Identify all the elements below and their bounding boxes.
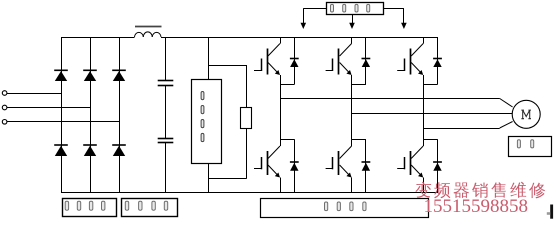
- inductor L1 core bar: [135, 26, 162, 28]
- label box 3 (inverter): [261, 199, 429, 218]
- diode D7 (freewheel): [290, 58, 299, 60]
- wire output U: [280, 98, 500, 100]
- wire D11 leg: [365, 139, 367, 192]
- wire phase leg 3 (mid): [423, 85, 425, 140]
- wire brake unit to DC- bus: [208, 163, 210, 192]
- arrow to phase V gates: [349, 23, 355, 29]
- wire rectifier leg 3: [119, 37, 121, 192]
- wire DC+ top bus (right of inductor): [161, 37, 438, 39]
- wire DC+ top bus (left of inductor): [61, 37, 135, 39]
- wire driver right arm: [384, 8, 404, 10]
- wire brake resistor bottom lead: [246, 128, 248, 179]
- transistor Q1 emitter lead: [280, 75, 282, 85]
- label box 1 (rectifier): [63, 199, 117, 217]
- label box 4 (motor): [509, 137, 552, 157]
- transistor Q2 collector lead: [351, 37, 353, 44]
- transistor Q4 emitter lead: [280, 178, 282, 193]
- wire DC+ to brake unit: [208, 37, 210, 79]
- diode D9 (freewheel): [433, 58, 442, 60]
- brake unit U1 label glyphs: [201, 92, 204, 100]
- wire input L3 to rectifier leg: [7, 121, 119, 123]
- transistor Q4 (IGBT): [268, 146, 280, 159]
- transistor Q6 collector lead: [423, 139, 425, 146]
- svg-text:15515598858: 15515598858: [424, 196, 529, 217]
- diode D8 (freewheel): [362, 58, 371, 60]
- capacitor C2: [158, 138, 174, 140]
- transistor Q5 (IGBT): [340, 146, 352, 159]
- diode D6 (rectifier bottom): [112, 144, 126, 146]
- wire D8 leg: [365, 37, 367, 85]
- wire output V: [352, 113, 513, 115]
- wire phase leg 2 (mid): [351, 85, 353, 140]
- wire cap leg lower: [165, 143, 167, 193]
- brake unit U1 box: [192, 80, 222, 164]
- wire cap leg middle: [165, 85, 167, 138]
- wire input L1 to rectifier leg: [7, 93, 61, 95]
- wire junction Q3/D9: [423, 84, 437, 86]
- wire driver middle arm: [352, 15, 354, 24]
- wire input L2 to rectifier leg: [7, 107, 90, 109]
- driver board U2 label glyphs: [331, 4, 334, 12]
- driver board U2 box: [327, 3, 384, 15]
- wire junction Q4/D10: [280, 139, 294, 141]
- diode D11 (freewheel): [362, 161, 371, 163]
- wire brake resistor return (horizontal): [209, 178, 247, 180]
- wire brake resistor top lead: [246, 65, 248, 107]
- wire DC- bottom bus: [61, 192, 438, 194]
- diode D5 (rectifier bottom): [83, 144, 97, 146]
- wire phase leg 1 (mid): [280, 85, 282, 140]
- transistor Q6 emitter lead: [423, 178, 425, 193]
- transistor Q5 collector lead: [351, 139, 353, 146]
- watermark line 1 (Chinese): [415, 182, 431, 198]
- transistor Q1 (IGBT): [268, 44, 280, 57]
- label box 3 glyphs: [325, 202, 328, 211]
- wire output W: [423, 128, 500, 130]
- transistor Q5 emitter lead: [351, 178, 353, 193]
- label box 2 (filter caps): [122, 199, 178, 217]
- motor M1: [512, 100, 540, 128]
- diode D2 (rectifier top): [83, 69, 97, 71]
- wire branch DC+ to brake resistor (horizontal): [209, 65, 247, 67]
- transistor Q6 (IGBT): [411, 146, 423, 159]
- arrow to phase U gates: [301, 23, 307, 29]
- transistor Q2 (IGBT): [340, 44, 352, 57]
- wire D7 leg: [294, 37, 296, 85]
- capacitor C1: [158, 80, 174, 82]
- wire D9 leg: [437, 37, 439, 85]
- wire D10 leg: [294, 139, 296, 192]
- diode D10 (freewheel): [290, 161, 299, 163]
- motor M1 label M: [521, 110, 531, 119]
- wire junction Q6/D12: [423, 139, 437, 141]
- resistor R1 (brake resistor): [241, 108, 252, 129]
- label box 2 glyphs: [125, 201, 128, 210]
- wire cap leg upper: [165, 37, 167, 81]
- transistor Q3 collector lead: [423, 37, 425, 44]
- wire junction Q5/D11: [352, 139, 366, 141]
- arrow to phase W gates: [401, 23, 407, 29]
- diode D4 (rectifier bottom): [54, 144, 68, 146]
- stray mark (cut-off glyph, bottom right): [550, 205, 553, 219]
- transistor Q3 emitter lead: [423, 75, 425, 85]
- input terminal T2: [2, 105, 7, 110]
- wire D12 leg: [437, 139, 439, 192]
- transistor Q2 emitter lead: [351, 75, 353, 85]
- label box 4 glyphs: [517, 140, 520, 148]
- inductor L1 (DC choke): [135, 32, 144, 37]
- label box 1 glyphs: [65, 201, 68, 210]
- transistor Q1 collector lead: [280, 37, 282, 44]
- wire rectifier leg 2: [90, 37, 92, 192]
- diode D1 (rectifier top): [54, 69, 68, 71]
- transistor Q4 collector lead: [280, 139, 282, 146]
- transistor Q3 (IGBT): [411, 44, 423, 57]
- diode D3 (rectifier top): [112, 69, 126, 71]
- input terminal T3: [2, 120, 7, 125]
- wire driver left arm: [303, 8, 326, 10]
- wire rectifier leg 1: [61, 37, 63, 192]
- wire junction Q2/D8: [352, 84, 366, 86]
- input terminal T1: [2, 91, 7, 96]
- wire junction Q1/D7: [280, 84, 294, 86]
- diode D12 (freewheel): [433, 161, 442, 163]
